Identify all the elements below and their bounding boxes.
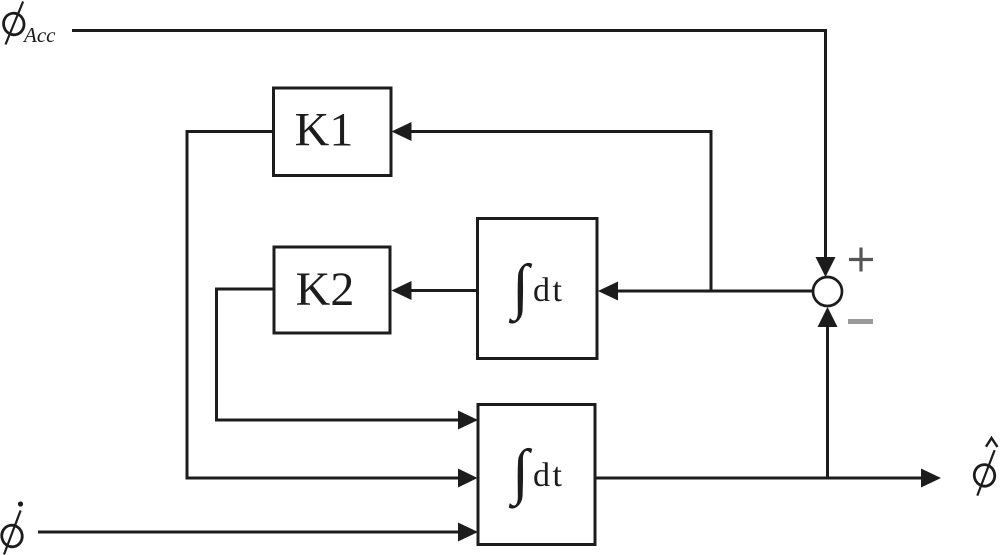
svg-text:dt: dt xyxy=(533,457,564,494)
svg-text:K2: K2 xyxy=(296,263,355,316)
svg-text:Acc: Acc xyxy=(22,23,56,47)
svg-text:dt: dt xyxy=(533,272,564,309)
svg-text:K1: K1 xyxy=(295,104,354,157)
